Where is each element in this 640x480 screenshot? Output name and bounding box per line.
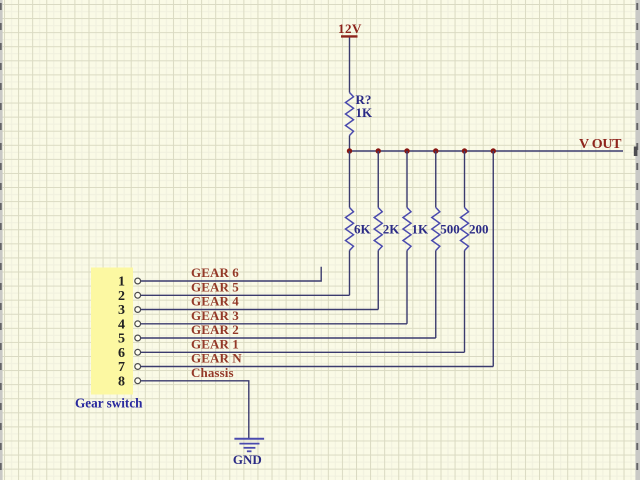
svg-text:Gear switch: Gear switch [75,396,143,411]
svg-text:500: 500 [440,222,460,237]
wire bus down to GEAR N [492,151,494,367]
wire resistor 6K bottom to pin 2 [349,251,351,296]
svg-text:200: 200 [469,222,489,237]
svg-text:Chassis: Chassis [191,365,234,380]
wire GEAR 3 [141,323,407,325]
junction dot 3 on V OUT bus [404,148,409,153]
resistor 200 [461,208,469,251]
pin 1 circle [135,278,141,284]
svg-text:GEAR 1: GEAR 1 [191,336,239,351]
wire bus to resistor 2K top [377,151,379,208]
junction dot 4 on V OUT bus [433,148,438,153]
wire bus to resistor 200 top [464,151,466,208]
junction dot 1 on V OUT bus [347,148,352,153]
connector Gear switch body [91,268,133,395]
wire V OUT bus [350,150,624,152]
junction dot 2 on V OUT bus [376,148,381,153]
svg-text:1: 1 [118,275,125,290]
wire GEAR 6 with stub [141,267,322,281]
wire resistor 500 bottom to pin 5 [435,251,437,339]
svg-text:GEAR 3: GEAR 3 [191,308,239,323]
junction dot 6 on V OUT bus [491,148,496,153]
svg-text:3: 3 [118,303,125,318]
svg-text:5: 5 [118,332,125,347]
wire 12V to R? [349,38,351,93]
svg-text:V OUT: V OUT [579,137,622,152]
pin 2 circle [135,292,141,298]
svg-text:GEAR N: GEAR N [191,351,242,366]
wire GEAR 1 [141,351,465,353]
wire GEAR 2 [141,337,436,339]
svg-text:GEAR 6: GEAR 6 [191,265,239,280]
junction dot 5 on V OUT bus [462,148,467,153]
wire bus to resistor 500 top [435,151,437,208]
wire bus to resistor 1K top [406,151,408,208]
wire resistor 2K bottom to pin 3 [377,251,379,310]
pin 5 circle [135,335,141,341]
svg-text:4: 4 [118,317,125,332]
pin 4 circle [135,321,141,327]
wire resistor 1K bottom to pin 4 [406,251,408,324]
resistor 500 [432,208,440,251]
svg-text:GND: GND [233,452,262,467]
wire R? to V OUT bus [349,136,351,152]
wire GEAR 5 [141,294,350,296]
svg-text:7: 7 [118,360,125,375]
wire GEAR 4 [141,309,379,311]
pin 3 circle [135,307,141,313]
resistor 2K [374,208,382,251]
pin 7 circle [135,364,141,370]
svg-text:1K: 1K [356,105,374,120]
svg-text:6K: 6K [354,222,372,237]
resistor R? 1K [346,93,354,136]
resistor 1K [403,208,411,251]
wire Chassis to ground [141,381,249,438]
svg-text:2K: 2K [383,222,401,237]
pin 6 circle [135,349,141,355]
svg-text:12V: 12V [338,21,362,36]
svg-text:GEAR 5: GEAR 5 [191,279,239,294]
svg-text:6: 6 [118,346,125,361]
wire resistor 200 bottom to pin 6 [464,251,466,353]
svg-text:8: 8 [118,374,125,389]
resistor 6K [346,208,354,251]
svg-text:1K: 1K [412,222,430,237]
wire GEAR N [141,366,494,368]
wire bus to resistor 6K top [349,151,351,208]
ground symbol [234,439,264,452]
power port 12V [338,21,362,37]
svg-text:GEAR 4: GEAR 4 [191,294,239,309]
svg-text:GEAR 2: GEAR 2 [191,322,239,337]
pin 8 circle [135,378,141,384]
svg-text:2: 2 [118,289,125,304]
